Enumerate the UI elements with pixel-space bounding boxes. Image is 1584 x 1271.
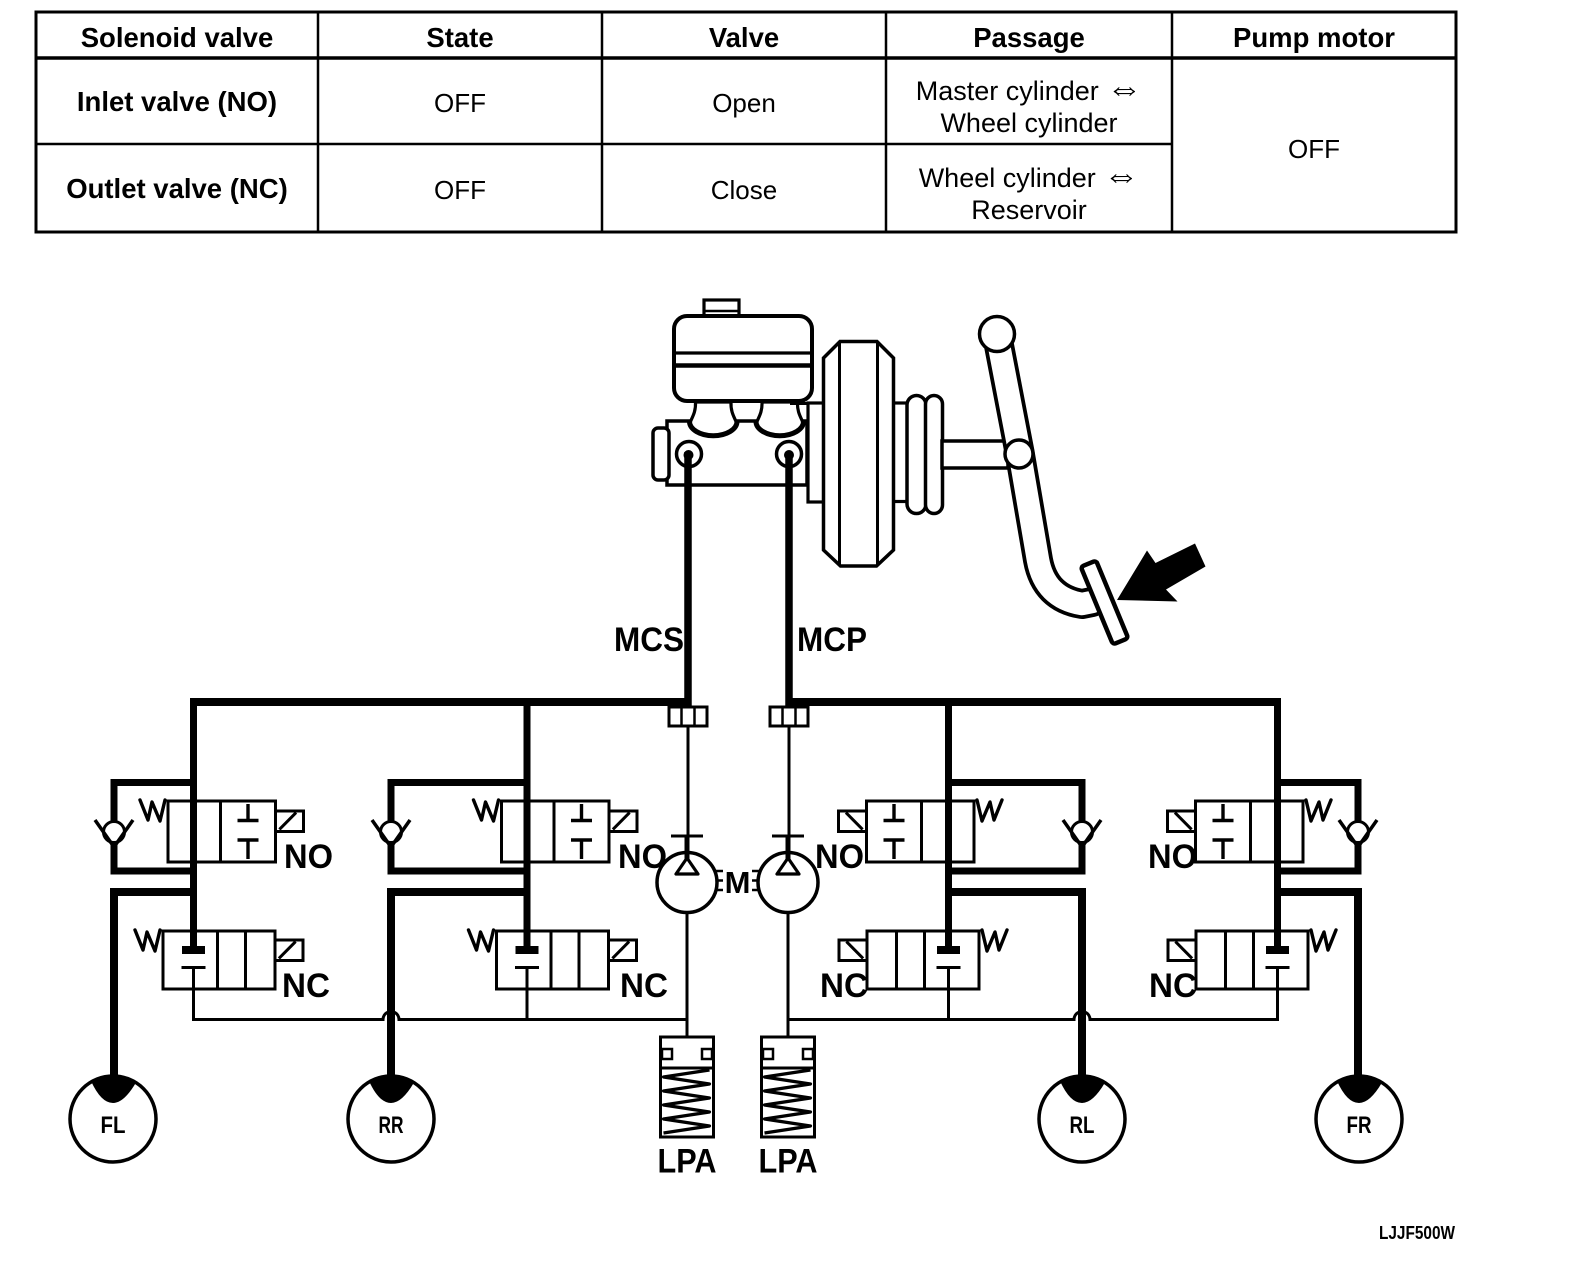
svg-text:RL: RL — [1070, 1112, 1095, 1139]
svg-text:FL: FL — [101, 1112, 126, 1139]
outlet valve NC (RR) — [469, 930, 637, 989]
pedal pivot — [980, 317, 1015, 352]
svg-text:NO: NO — [618, 838, 667, 876]
svg-text:Close: Close — [711, 175, 777, 205]
wheel cylinder RR — [348, 1076, 434, 1162]
pedal push rod — [942, 441, 1008, 468]
wheel cylinder FR — [1316, 1076, 1402, 1162]
wire: left header line — [190, 698, 691, 706]
svg-text:MCS: MCS — [614, 621, 684, 659]
inlet valve NO (RR) — [474, 800, 638, 862]
wire: MCS damper feed to pump — [687, 706, 690, 858]
wire: RR check valve bypass loop — [391, 783, 527, 872]
wire: drop to RL inlet valve — [945, 698, 952, 950]
wire: RR outlet valve return stem — [526, 968, 529, 1020]
wire: FL check valve bypass loop — [114, 783, 194, 872]
pump 1 — [657, 836, 717, 913]
booster front plate — [808, 403, 826, 502]
svg-text:NO: NO — [284, 838, 333, 876]
svg-text:Wheel cylinder: Wheel cylinder — [940, 108, 1117, 138]
brake fluid reservoir — [674, 316, 812, 401]
svg-text:NC: NC — [282, 967, 330, 1005]
svg-text:Passage: Passage — [973, 22, 1085, 53]
pedal pad — [1081, 561, 1128, 645]
pump motor M — [716, 865, 759, 900]
brake pedal arm — [997, 335, 1092, 604]
pump 2 — [758, 836, 818, 913]
check valve (FL bypass) — [95, 820, 133, 847]
brake booster shell — [824, 342, 894, 567]
svg-text:M: M — [725, 865, 751, 900]
svg-text:Reservoir: Reservoir — [971, 195, 1087, 225]
wire: pump 1 suction to LPA — [686, 912, 689, 1038]
booster rear housing rings — [894, 396, 943, 514]
wire: right header line — [787, 698, 1281, 706]
force arrow on pedal — [1117, 544, 1206, 602]
svg-text:LPA: LPA — [658, 1143, 717, 1181]
svg-text:Solenoid valve: Solenoid valve — [81, 22, 274, 53]
wire: RL wheel cylinder line — [949, 892, 1083, 1079]
table: solenoid valve state table — [36, 12, 1456, 232]
svg-text:OFF: OFF — [1288, 134, 1340, 164]
svg-text:Open: Open — [712, 88, 776, 118]
svg-text:Valve: Valve — [709, 22, 779, 53]
svg-text:NC: NC — [1149, 967, 1197, 1005]
svg-text:Inlet valve (NO): Inlet valve (NO) — [77, 86, 277, 117]
wire: RL check valve bypass loop — [949, 783, 1083, 872]
svg-text:Pump motor: Pump motor — [1233, 22, 1395, 53]
damper on MCS line — [669, 707, 707, 726]
master cylinder body — [653, 421, 807, 485]
wire: MCS line from master cylinder to left header — [684, 452, 692, 706]
svg-text:OFF: OFF — [434, 175, 486, 205]
wire: FR wheel cylinder line — [1278, 892, 1359, 1079]
inlet valve NO (RL) — [839, 800, 1003, 862]
svg-text:Outlet valve (NC): Outlet valve (NC) — [66, 173, 288, 204]
svg-text:LJJF500W: LJJF500W — [1379, 1223, 1455, 1243]
check valve (RR bypass) — [372, 820, 410, 847]
inlet valve NO (FR) — [1168, 800, 1332, 862]
wheel cylinder FL — [70, 1076, 156, 1162]
master cylinder outlet port MCP — [777, 442, 802, 467]
outlet valve NC (FL) — [135, 930, 303, 989]
wire: left outlet-valve return manifold — [194, 968, 688, 1020]
wire: drop to FR inlet valve — [1274, 698, 1281, 950]
push rod clevis pin — [1005, 440, 1033, 468]
svg-text:NO: NO — [815, 838, 864, 876]
svg-text:NO: NO — [1148, 838, 1197, 876]
check valve (FR bypass) — [1339, 820, 1377, 847]
damper on MCP line — [770, 707, 808, 726]
check valve (RL bypass) — [1063, 820, 1101, 847]
reservoir feed grommets — [690, 402, 804, 436]
wire: MCP line from master cylinder to right header — [785, 452, 793, 706]
svg-text:OFF: OFF — [434, 88, 486, 118]
svg-text:FR: FR — [1347, 1112, 1372, 1139]
wire: drop to RR inlet valve — [524, 698, 531, 950]
wheel cylinder RL — [1039, 1076, 1125, 1162]
outlet valve NC (FR) — [1168, 930, 1336, 989]
master cylinder outlet port MCS — [677, 442, 702, 467]
wire: right outlet-valve return manifold — [788, 968, 1278, 1020]
svg-text:NC: NC — [620, 967, 668, 1005]
wire: FR check valve bypass loop — [1278, 783, 1359, 872]
low pressure accumulator LPA 2 — [762, 1037, 815, 1137]
wire: RL outlet valve return stem — [947, 968, 950, 1020]
svg-text:State: State — [426, 22, 493, 53]
outlet valve NC (RL) — [839, 930, 1007, 989]
wire: drop to FL inlet valve — [190, 698, 197, 950]
wire: FL wheel cylinder line — [114, 892, 194, 1079]
wire: pump 2 suction to LPA — [787, 912, 790, 1038]
inlet valve NO (FL) — [140, 800, 304, 862]
wire: RR wheel cylinder line — [391, 892, 527, 1079]
svg-text:LPA: LPA — [759, 1143, 818, 1181]
svg-text:MCP: MCP — [797, 621, 867, 659]
reservoir cap — [704, 300, 739, 317]
low pressure accumulator LPA 1 — [661, 1037, 714, 1137]
svg-text:RR: RR — [379, 1112, 404, 1139]
wire: MCP damper feed to pump — [788, 706, 791, 858]
svg-text:NC: NC — [820, 967, 868, 1005]
